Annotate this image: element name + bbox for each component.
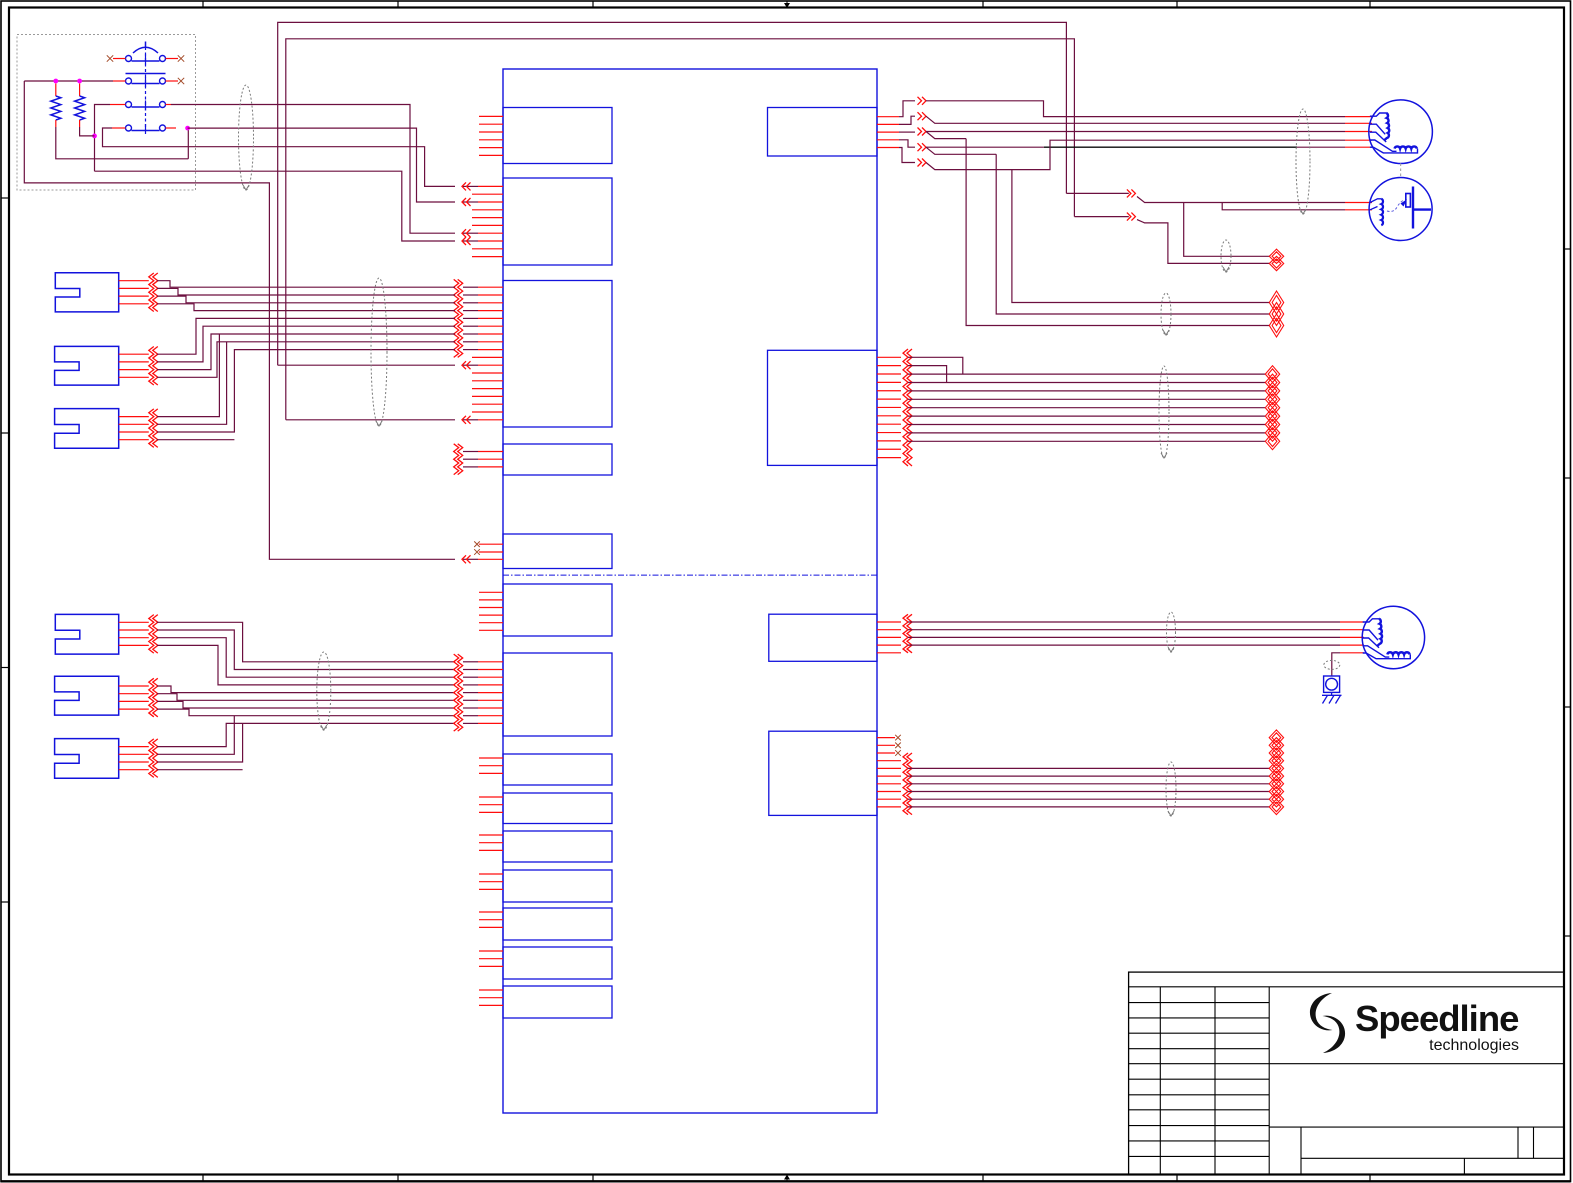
tag diamond chain J4 — [1269, 730, 1283, 815]
M3 red entry leads — [1340, 622, 1364, 653]
P9 unconnected pin stubs — [479, 797, 503, 812]
J2 harness wires to shield tags — [908, 357, 1265, 441]
P1 unconnected pin stubs — [479, 116, 503, 155]
connector module J4 — [769, 731, 877, 815]
J1 wire jogs to tag rows — [899, 101, 915, 163]
J3 pin stubs — [877, 622, 901, 653]
M2 red entry leads — [1345, 203, 1372, 210]
wire M1 phase 1 — [926, 101, 1345, 117]
P11 unconnected pin stubs — [479, 874, 503, 889]
resistor R1 — [51, 84, 61, 128]
ground connection box — [1324, 676, 1340, 692]
connector X5 pin leads — [119, 686, 149, 709]
connector module J1 — [768, 108, 878, 157]
connector module P1 — [503, 108, 612, 164]
connector module P6 — [503, 584, 612, 636]
title block logo cell and lower cells — [1269, 1064, 1564, 1175]
X3 harness wires risers — [157, 334, 455, 440]
J4 tag zigzag band — [903, 753, 912, 815]
connector module P8 — [503, 754, 612, 785]
P6 unconnected pin stubs — [479, 592, 503, 630]
connector X1 — [55, 273, 118, 312]
connector X5 — [55, 676, 119, 715]
connector module P3 — [503, 281, 612, 428]
wire A pole3 to block row7 — [171, 105, 455, 234]
connector X5 tag zigzag band — [149, 678, 158, 717]
wire M3 ground lead — [1332, 653, 1340, 676]
J3 tag zigzag band — [903, 614, 912, 653]
key switch pole 4 contacts — [126, 124, 166, 134]
shield ellipse switch harness — [239, 85, 254, 190]
P5 no-connect x marks — [474, 541, 480, 554]
wire feeder1 to block row 365 — [278, 364, 455, 366]
shield ellipse ground lead — [1324, 660, 1340, 669]
motor M1 winding symbol — [1370, 113, 1418, 153]
shield ellipse motor harness — [1296, 109, 1310, 214]
resistor R2 — [75, 84, 85, 128]
border zone ticks bottom — [203, 1175, 1370, 1182]
connector X6 tag zigzag band — [149, 739, 158, 778]
J4 pin stubs upper with x marks — [877, 738, 895, 753]
junction dot R2 top — [77, 79, 82, 84]
wire M2 feed line 2 — [1074, 217, 1269, 264]
wire M2 feed 2 jog — [1222, 203, 1345, 210]
P3 row18 tag chevron — [462, 416, 471, 424]
motor M3 winding symbol — [1363, 619, 1411, 659]
link M1-M2 dashed — [1400, 164, 1402, 178]
J3 wires to motor M3 — [908, 622, 1340, 645]
P7 pin stubs — [463, 662, 503, 724]
border zone ticks left — [1, 198, 9, 902]
connector X4 pin leads — [119, 622, 149, 645]
top feeder line 1 — [278, 22, 1067, 365]
connector X1 pin leads — [119, 281, 149, 304]
tag diamond chain M2 — [1269, 249, 1283, 271]
P14 unconnected pin stubs — [479, 990, 503, 1005]
wire R2 bottom to junction — [80, 127, 95, 136]
pole 2 left stub — [113, 80, 126, 82]
X1 harness wires to P3 rows 1-4 — [157, 281, 455, 311]
wire M2 feed 1 branch to tag — [1184, 203, 1270, 257]
svg-text:Speedline: Speedline — [1355, 998, 1519, 1039]
key switch pole 1 contacts — [126, 55, 166, 65]
connector module P9 — [503, 793, 612, 824]
wire feeder2 to block row 420 — [286, 419, 455, 421]
wire C loop to block row1 — [188, 147, 455, 187]
P13 unconnected pin stubs — [479, 951, 503, 966]
connector module P11 — [503, 870, 612, 902]
outer border bottom emphasis — [1, 1180, 1571, 1182]
shield ellipse tag group upper — [1161, 293, 1171, 335]
connector X3 tag zigzag band — [149, 409, 158, 448]
connector module P4 — [503, 444, 612, 475]
shield ellipse M3 harness — [1167, 612, 1176, 652]
main controller block outline — [503, 69, 877, 1113]
shield ellipse J4 harness — [1166, 762, 1176, 816]
pole 4 left stub — [112, 127, 126, 129]
top centering arrow — [784, 1, 790, 8]
J2 pin stubs — [877, 357, 901, 457]
wire M1 phase 4 black segment — [926, 147, 1345, 154]
J1 wire tag chevrons — [918, 97, 927, 167]
connector X3 pin leads — [119, 417, 149, 440]
connector X4 — [55, 614, 118, 654]
P3 row11 tag chevron — [462, 361, 471, 369]
key switch pole 2 contacts — [126, 77, 166, 87]
wire junction riser x188 — [187, 128, 189, 159]
branch wires down to shield tag group — [966, 139, 1269, 326]
P5 row3 tag chevron — [462, 555, 471, 563]
P3 pin stubs — [463, 287, 503, 420]
P3 harness tag zigzag band — [454, 279, 463, 357]
junction dot pole4 right — [185, 126, 190, 131]
motor M3 circle — [1362, 606, 1424, 668]
M1 red entry leads — [1345, 117, 1372, 148]
J4 harness wires to shield tags — [908, 768, 1270, 807]
wire pole4 U loop — [103, 128, 189, 147]
motor M2 circle — [1369, 178, 1432, 241]
connector X3 — [55, 409, 119, 449]
connector module J2 — [768, 350, 878, 465]
P2 pin stubs — [463, 186, 503, 256]
P4 tag zigzag band — [454, 444, 463, 475]
motor M1 circle — [1369, 100, 1433, 164]
border zone ticks right — [1564, 249, 1571, 936]
border zone ticks top — [203, 1, 1370, 8]
wire D pole3-left to block row — [95, 171, 456, 241]
pole 4 right stub — [166, 127, 177, 129]
wire M1 phase 2 with branch — [926, 116, 1345, 123]
dashed enclosure box around key switch — [17, 35, 196, 191]
junction dot R2 bottom join — [92, 134, 97, 139]
key switch shaft dashed line — [145, 47, 147, 131]
connector module P13 — [503, 947, 612, 979]
X2 harness wires to P3 rows 5-8 — [157, 318, 455, 377]
connector X6 pin leads — [119, 747, 149, 770]
pole 3 right stub — [166, 104, 172, 106]
wire pole2-left to resistors feed — [24, 80, 113, 82]
connector module P5 — [503, 534, 612, 569]
connector X6 — [55, 739, 119, 779]
title block revision grid — [1129, 987, 1270, 1175]
key switch actuator arc — [133, 42, 158, 54]
P5 pin stubs — [463, 544, 503, 559]
pole 3 left stub — [110, 104, 126, 106]
connector module P7 — [503, 653, 612, 736]
top feeder line 2 — [286, 39, 1075, 420]
block half divider dash-dot line — [503, 574, 877, 576]
connector X4 tag zigzag band — [149, 615, 158, 654]
tag diamond chain upper — [1269, 291, 1283, 337]
connector X2 pin leads — [119, 354, 149, 377]
connector X2 — [55, 346, 119, 385]
motor M2 internal symbol — [1370, 187, 1431, 229]
svg-text:technologies: technologies — [1429, 1037, 1519, 1054]
ground symbol — [1322, 692, 1342, 703]
pole 2 right stub with x — [166, 80, 179, 82]
X6 harness wires risers — [157, 716, 455, 770]
connector X1 tag zigzag band — [149, 273, 158, 312]
P12 unconnected pin stubs — [479, 912, 503, 927]
wire left drop to lower-half feed — [24, 81, 455, 559]
P4 pin stubs with tags — [463, 452, 503, 467]
P2 wire tag chevrons — [462, 182, 471, 245]
shield ellipse lower connector harness — [317, 652, 331, 730]
connector X2 tag zigzag band — [149, 347, 158, 386]
pole 1 right stub with x — [166, 58, 179, 60]
connector module P12 — [503, 908, 612, 940]
Speedline logo swirl icon — [1310, 993, 1345, 1053]
wire B pole4 to block row3 — [188, 128, 455, 202]
wire M1 phase 5 via lower tag row — [926, 140, 1345, 169]
key switch interlock bar — [126, 73, 166, 75]
connector module P14 — [503, 986, 612, 1018]
junction dot R1 top — [53, 79, 58, 84]
wire M1 phase 3 — [926, 132, 1345, 139]
P7 harness tag zigzag band — [454, 654, 463, 731]
P8 unconnected pin stubs — [479, 758, 503, 773]
connector module P2 — [503, 178, 612, 265]
feed2 tag chevron — [1127, 213, 1136, 221]
key switch pole 3 contacts — [126, 101, 166, 111]
title block outline — [1129, 972, 1564, 1174]
J1 pin stubs — [877, 117, 899, 148]
connector module J3 — [769, 614, 877, 661]
shield ellipse M2 tags — [1221, 240, 1231, 272]
shield ellipse J2 harness — [1159, 366, 1169, 458]
tag diamond chain J2 — [1265, 366, 1279, 450]
J4 pin stubs lower — [877, 761, 901, 807]
wire M2 feed 1 — [1066, 193, 1345, 202]
shield ellipse upper connector harness — [371, 278, 387, 426]
wire R1 bottom run — [56, 127, 189, 159]
bottom centering arrow — [784, 1174, 790, 1182]
X4 harness wires to P7 rows 1-4 — [157, 622, 455, 685]
X5 harness wires to P7 rows 5-8 — [157, 686, 455, 716]
connector module P10 — [503, 831, 612, 862]
feed1 tag chevron — [1127, 189, 1136, 197]
P10 unconnected pin stubs — [479, 835, 503, 850]
wire pole3-left drop — [95, 105, 111, 172]
J2 tag zigzag band — [903, 349, 912, 466]
pole 1 left stub with x — [113, 58, 126, 60]
